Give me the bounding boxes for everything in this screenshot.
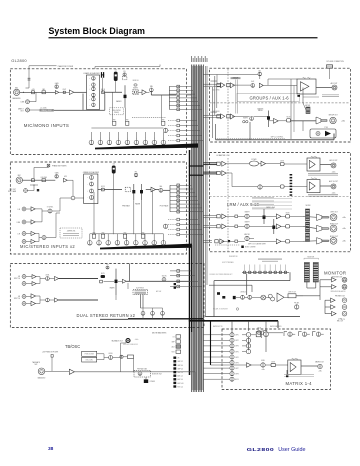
stereo eq wire	[98, 189, 102, 191]
master mute R	[286, 225, 290, 228]
pad switch mono	[32, 91, 35, 94]
lrm inner dashed divider	[209, 196, 350, 198]
meter label groups	[305, 105, 310, 107]
matrix opamp	[288, 360, 301, 374]
bal pot stereo	[159, 188, 163, 192]
lrm link oval	[249, 161, 258, 166]
svg-text:GL2800: GL2800	[11, 58, 27, 63]
osc small pot	[120, 355, 123, 358]
stereo channel bus wedge	[100, 244, 192, 250]
routing switches stereo	[170, 184, 203, 213]
master fader label groups	[257, 107, 263, 110]
monitor meter right	[313, 263, 318, 283]
grp post tri groups	[274, 118, 279, 123]
monitor meter left	[304, 263, 309, 283]
pad switch stereo	[32, 179, 35, 182]
matrix dashed box	[222, 329, 331, 390]
balanced label mono	[13, 97, 22, 100]
fader10 label lrm	[266, 206, 275, 209]
pre fade label stereo	[122, 205, 129, 208]
mic out jack stereo	[24, 189, 28, 193]
matrix top feeds	[277, 321, 279, 328]
monitor wires h1	[214, 280, 290, 282]
return routing wires	[140, 295, 142, 308]
grp mute box groups	[287, 119, 291, 122]
fader L stereo	[133, 184, 135, 200]
return R jack 1	[22, 282, 26, 286]
aux bus resistor groups	[217, 83, 220, 86]
matrix ext feed thick	[210, 321, 212, 365]
mute on switch stereo	[112, 166, 116, 174]
lrm switch stack	[290, 174, 293, 176]
master box R	[235, 225, 238, 228]
grp lr return wire	[216, 139, 335, 141]
prefade talk box	[134, 370, 151, 377]
syslink connector	[327, 65, 333, 68]
wire pan to routing mono	[150, 92, 152, 95]
stereo eq label	[83, 171, 100, 174]
insert label groups	[243, 117, 248, 119]
gain pot stereo	[55, 175, 58, 178]
aux tap wires groups	[203, 83, 219, 85]
groups inner dashed divider	[209, 102, 350, 104]
insert box stereo	[125, 187, 130, 192]
mute master switches	[171, 335, 180, 354]
alt pot 2	[151, 311, 155, 315]
return pot 1	[46, 277, 50, 281]
mute wire stereo	[113, 174, 115, 190]
lrm notes L	[308, 172, 338, 174]
post amp triangle mono	[142, 90, 146, 95]
line/mic switch stereo	[42, 179, 46, 182]
aux out xlr groups	[332, 85, 337, 90]
matrix master pot row	[284, 332, 324, 337]
line label mono	[21, 102, 25, 104]
grp bus resistor groups 2	[227, 115, 230, 118]
fader label mono	[116, 100, 122, 103]
stereo line wires	[26, 208, 31, 210]
groups opamp notes	[322, 94, 339, 96]
matrix sum amps	[242, 333, 251, 354]
svg-text:System Block Diagram: System Block Diagram	[49, 26, 146, 36]
lrm out wire L	[320, 164, 331, 166]
monitor meter wires	[306, 282, 308, 288]
lrm meter M	[305, 233, 309, 242]
return amp L1	[32, 275, 36, 279]
phones label	[335, 296, 345, 298]
stereo section label	[20, 244, 75, 249]
aux pre/post switches stereo	[92, 232, 144, 238]
mute tiny label top right	[341, 319, 345, 321]
monitor only label	[152, 373, 162, 375]
monitor sum node	[261, 295, 266, 300]
monitor out xlr R	[342, 284, 347, 289]
monitor wires v	[246, 274, 248, 296]
aux feeds dashed box return	[133, 289, 148, 294]
matrix mix box	[256, 332, 260, 337]
meter groups	[306, 107, 310, 114]
wire amp to eq mono	[74, 91, 87, 93]
pan pot mono	[149, 88, 153, 92]
lrm opamp R	[307, 180, 320, 193]
lrm amp R	[222, 171, 226, 176]
2tk switch	[264, 331, 267, 335]
master wire M	[221, 240, 235, 242]
line R amp stereo ch2	[31, 239, 35, 243]
aux out wire groups	[263, 84, 297, 86]
lrm resistor R	[217, 171, 220, 174]
alt pot 3	[161, 311, 165, 315]
impedance label monitor	[330, 290, 345, 293]
master pot M	[245, 236, 249, 240]
left out xlr	[330, 214, 337, 221]
aux bus resistor groups 2	[227, 83, 230, 86]
stereo ch2 wires	[26, 233, 31, 235]
eq in switch mono	[102, 91, 105, 94]
lrm resistor MM	[215, 240, 218, 243]
monitor feed line	[205, 316, 300, 318]
master pot R	[245, 224, 249, 228]
top left corner wires	[94, 67, 96, 69]
fader R stereo	[141, 184, 143, 200]
lr master link label	[216, 154, 230, 157]
width pot stereo	[37, 189, 39, 191]
monitor level pot L	[241, 295, 245, 299]
grp to lr label	[248, 243, 266, 245]
hpf triangle stereo	[64, 178, 68, 182]
monitor select caption rows	[258, 259, 282, 260]
lrm out wires	[303, 216, 317, 217]
master box L	[235, 215, 238, 218]
matrix mix pot	[264, 332, 269, 337]
line L amp stereo	[31, 207, 35, 211]
mic wire stereo	[23, 179, 56, 181]
mono channel bus wedge	[95, 143, 198, 149]
dual stereo return dashed box	[10, 264, 204, 328]
monitor small switches	[217, 292, 220, 295]
lrm resistor ML	[217, 215, 220, 218]
return L jack 2	[22, 295, 26, 299]
pfl dashed box mono	[122, 76, 127, 79]
syslink label	[326, 61, 343, 63]
line jack mono	[26, 100, 30, 104]
mic wire mono	[20, 91, 56, 93]
master insert label L	[244, 211, 249, 213]
return fader	[115, 269, 117, 295]
lrm amp ML	[222, 214, 226, 219]
aux8 pot mono	[163, 128, 167, 132]
4 band equaliser label mono	[83, 72, 100, 75]
return pfl pot	[106, 266, 109, 269]
2tk row wire	[267, 332, 283, 334]
mix bus thick line A	[189, 150, 191, 375]
master mute M	[286, 240, 290, 243]
rec out label	[338, 318, 342, 320]
monitor select labels	[229, 256, 237, 258]
monitor levels label	[240, 291, 245, 293]
aux8 pot stereo	[163, 224, 167, 228]
grp wire to fader groups	[241, 115, 250, 117]
monitor sel bottom labels	[210, 274, 233, 276]
matrix ext wires	[211, 364, 247, 366]
eq box stereo	[84, 174, 98, 204]
aux routing switches stereo	[168, 218, 203, 236]
return fader label	[110, 287, 115, 290]
group out label groups	[328, 114, 337, 116]
monitor dim switch	[233, 296, 236, 299]
return wires 1	[26, 276, 32, 278]
mono aux feed verticals	[112, 92, 114, 121]
lrm tap wires	[203, 162, 216, 164]
lrm xlr L	[331, 163, 336, 168]
wire bal routing stereo	[146, 189, 151, 191]
phantom capacitor mono	[28, 77, 31, 79]
return tri 2b	[55, 298, 59, 302]
return post amp	[122, 279, 126, 283]
gang lines groups	[235, 80, 237, 114]
talkback balanced label	[38, 376, 46, 379]
rec out tri	[332, 311, 337, 315]
eq box mono	[87, 75, 100, 110]
fader label stereo	[135, 202, 141, 205]
groups divider dashed	[227, 69, 229, 141]
tb amp triangle	[69, 369, 74, 374]
svg-text:MONITOR: MONITOR	[324, 270, 346, 275]
tbosc label	[65, 344, 80, 349]
tb mic wire	[45, 370, 70, 372]
lrm label	[227, 202, 259, 207]
lrm amp MM	[220, 239, 224, 244]
group wire to out	[291, 120, 317, 122]
lrm amp L	[222, 161, 226, 166]
monitor out label	[332, 276, 343, 278]
monitor level pot R	[248, 295, 252, 299]
aux feed lines right of bus	[204, 66, 206, 317]
aux out wire groups2	[316, 87, 332, 89]
mono centre sq	[241, 246, 244, 249]
channel amp triangle mono	[69, 90, 74, 95]
mic label mono	[15, 87, 19, 89]
bus name labels	[191, 56, 208, 62]
2trk to lr box	[288, 294, 296, 298]
osc level pot	[109, 356, 113, 360]
matrix out wire	[301, 365, 318, 367]
footer logo GL2800	[247, 448, 275, 453]
groups box left taps thick	[203, 74, 258, 76]
aux monitor note rows lrm	[252, 197, 292, 209]
group out xlr	[330, 117, 336, 123]
sub in pot return	[162, 278, 166, 282]
phones jack 1	[342, 298, 347, 303]
page title	[49, 26, 146, 36]
svg-text:TB/OSC: TB/OSC	[65, 344, 80, 349]
page number 38	[48, 446, 54, 452]
lrm pot R	[258, 185, 262, 189]
post amp stereo	[151, 187, 156, 192]
wire to pan mono	[138, 91, 142, 93]
tb phantom label	[42, 351, 58, 354]
mic out wire stereo	[27, 190, 34, 192]
master wire R	[226, 225, 235, 227]
master tri L	[276, 214, 281, 219]
stereo aux feed verticals	[112, 190, 114, 235]
phantom switch stereo	[47, 164, 50, 167]
tb out vertical wire	[120, 343, 122, 372]
phantom power label mono	[58, 65, 74, 68]
line R amp stereo	[31, 220, 35, 224]
aux send pots mono	[89, 128, 166, 145]
lrm meter R	[305, 222, 309, 232]
svg-text:MATRIX 1-4: MATRIX 1-4	[286, 381, 313, 386]
gain pot mono	[55, 85, 58, 88]
master mute L	[286, 215, 290, 218]
talkback mic XLR	[38, 368, 45, 375]
master fader L	[263, 209, 265, 224]
mono out xlr	[330, 237, 337, 244]
mix bus thick line B	[191, 245, 193, 332]
line L jack stereo ch2	[22, 232, 26, 236]
lrm wire R	[226, 172, 232, 174]
matrix notes	[284, 374, 314, 376]
talkback mic label	[32, 361, 40, 364]
insert jacks groups	[243, 121, 245, 123]
alt pot wires	[142, 308, 144, 311]
aux master pot groups	[251, 84, 255, 88]
matrix feed thick line	[189, 320, 278, 322]
st level pot stereo ch2	[42, 236, 46, 240]
groups label	[250, 96, 290, 101]
aux send pots stereo	[88, 234, 166, 245]
alt labels return	[156, 290, 161, 293]
GL2800 label	[11, 58, 27, 63]
2tk in jack	[257, 331, 261, 335]
tb junction pot	[138, 372, 142, 376]
monitor out xlr L	[342, 277, 347, 282]
phantom wire stereo	[34, 167, 49, 169]
mono out horn	[317, 238, 322, 245]
sum wires stereo	[67, 179, 73, 181]
title rule	[49, 37, 318, 38]
matrix wire to opamp	[265, 364, 271, 366]
grp12 control dashed groups	[215, 138, 285, 140]
mono box to bus stub	[187, 94, 192, 96]
mute assign switches	[173, 357, 183, 389]
svg-text:38: 38	[48, 446, 54, 452]
mic label stereo	[18, 175, 22, 177]
svg-text:User Guide: User Guide	[278, 447, 305, 453]
direct out jack mono	[26, 108, 30, 112]
lrm meter label	[306, 205, 311, 207]
mono section label	[24, 123, 70, 128]
lrm amp MR	[222, 224, 226, 229]
pre-limiter options box mono	[110, 108, 124, 115]
grp bus resistor groups	[217, 115, 220, 118]
aux mix amp triangle	[221, 83, 225, 88]
meter wire groups	[302, 88, 304, 104]
mono lower input label	[40, 147, 42, 149]
matrix out jack	[318, 364, 322, 368]
post fade label stereo	[160, 205, 168, 208]
phones tri 2	[331, 305, 336, 309]
monitor cluster wires	[236, 297, 241, 299]
aux bus dashed wire mono	[132, 117, 166, 119]
line R jack stereo ch2	[22, 240, 26, 244]
return wires 2	[26, 296, 31, 298]
lrm mute R	[280, 185, 284, 188]
lrm wire L	[226, 163, 249, 165]
aux mix amp label	[231, 77, 241, 79]
return tri 1b	[55, 276, 59, 280]
monitor out feed wires	[320, 279, 332, 281]
talkback out label	[112, 340, 123, 343]
talkback out notes	[135, 339, 139, 341]
matrix black corner	[286, 375, 288, 377]
line L amp stereo ch2	[31, 231, 35, 235]
groups black corner	[297, 95, 300, 97]
direct out label mono	[18, 108, 24, 110]
mute masters label	[152, 331, 167, 334]
grp mix amp triangle	[221, 114, 225, 119]
st level pot stereo	[48, 209, 52, 213]
monitor select switches	[242, 265, 289, 274]
osc wires	[97, 353, 104, 355]
tb phantom switch	[51, 355, 53, 358]
mic/stereo inputs dashed box	[10, 162, 186, 254]
grp tap wires groups	[203, 114, 219, 116]
routing switches return	[170, 270, 202, 288]
lrm notes R	[308, 193, 338, 195]
groups left verticals	[212, 87, 214, 138]
osc switch box	[128, 355, 134, 359]
master pot L	[245, 214, 249, 218]
pfl pot mono	[123, 73, 126, 76]
monitor out tri L	[332, 278, 337, 282]
right out label	[330, 224, 338, 226]
pfl pot stereo	[134, 173, 138, 177]
groups tap tiny labels	[211, 81, 218, 82]
matrix out label	[315, 360, 324, 363]
junction mono mic	[23, 92, 24, 93]
matrix ext tri	[247, 363, 252, 368]
matrix label	[286, 381, 313, 386]
aux send label groups	[213, 88, 220, 91]
left out label	[330, 212, 337, 214]
lrm resistor MR	[217, 225, 220, 228]
comms box	[144, 379, 148, 383]
mix bus vertical lines	[192, 65, 204, 393]
lrm tap wires masters	[203, 215, 216, 217]
line/mic switch mono	[42, 91, 46, 94]
lrm out wire R	[320, 185, 331, 187]
svg-text:MIC/STEREO INPUTS x2: MIC/STEREO INPUTS x2	[20, 244, 75, 249]
lrm divider dashed	[227, 158, 229, 251]
mono out label	[330, 236, 338, 238]
line R jack stereo	[22, 220, 26, 224]
lrm wire L3	[266, 163, 281, 165]
mon ch box mono	[134, 84, 137, 86]
pfl afl pot	[295, 305, 299, 309]
mute wire mono	[115, 81, 117, 92]
dual return bus line	[128, 318, 203, 320]
matrix ext label	[213, 325, 222, 328]
return mute switch	[101, 275, 105, 278]
svg-text:GL2800: GL2800	[247, 448, 275, 453]
master fader R	[273, 219, 275, 234]
master box M	[235, 240, 238, 243]
lrm resistor L	[217, 162, 220, 165]
tb main wire	[75, 371, 196, 373]
monitor wires h2	[209, 284, 252, 286]
